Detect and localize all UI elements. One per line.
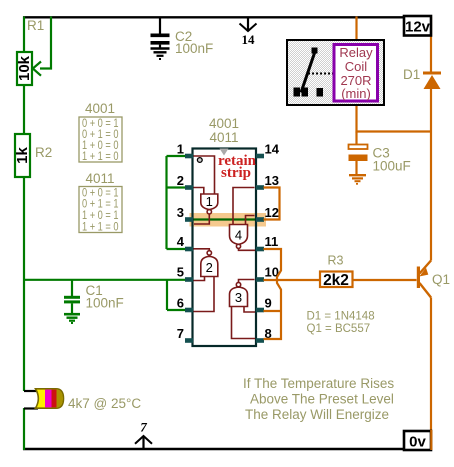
svg-text:10k: 10k	[16, 55, 33, 81]
svg-text:4: 4	[235, 228, 242, 243]
svg-text:100nF: 100nF	[86, 296, 124, 311]
svg-text:4011: 4011	[85, 171, 114, 186]
svg-text:6: 6	[177, 296, 184, 311]
svg-text:14: 14	[242, 32, 256, 47]
svg-text:2: 2	[206, 260, 213, 275]
svg-text:4: 4	[177, 234, 185, 249]
svg-text:1 + 1 = 0: 1 + 1 = 0	[82, 151, 119, 163]
svg-text:R3: R3	[328, 254, 344, 268]
svg-text:12: 12	[265, 205, 279, 220]
svg-text:2k2: 2k2	[323, 272, 349, 289]
svg-text:7: 7	[140, 420, 147, 435]
svg-text:3: 3	[177, 205, 184, 220]
svg-text:1 + 1 = 0: 1 + 1 = 0	[82, 222, 119, 234]
svg-text:4001: 4001	[85, 101, 115, 116]
svg-text:Relay: Relay	[339, 45, 373, 60]
svg-text:4011: 4011	[209, 130, 238, 145]
svg-text:R2: R2	[35, 145, 52, 160]
svg-text:11: 11	[265, 234, 279, 249]
svg-text:1 + 0 = 1: 1 + 0 = 1	[82, 210, 119, 222]
svg-text:7: 7	[177, 326, 184, 341]
svg-text:100nF: 100nF	[175, 41, 213, 56]
svg-text:0 + 1 = 1: 0 + 1 = 1	[82, 199, 119, 211]
svg-text:9: 9	[265, 296, 272, 311]
svg-text:5: 5	[177, 265, 184, 280]
svg-text:0v: 0v	[409, 434, 426, 451]
svg-text:13: 13	[265, 173, 279, 188]
svg-text:(min): (min)	[341, 86, 371, 101]
svg-text:The Relay Will Energize: The Relay Will Energize	[245, 407, 389, 422]
svg-text:3: 3	[235, 290, 242, 305]
svg-text:Q1: Q1	[432, 272, 450, 287]
svg-text:100uF: 100uF	[373, 159, 411, 174]
svg-text:If The Temperature Rises: If The Temperature Rises	[243, 376, 394, 391]
svg-text:strip: strip	[221, 165, 251, 181]
svg-text:Q1 = BC557: Q1 = BC557	[307, 323, 371, 335]
svg-text:R1: R1	[27, 18, 44, 33]
svg-text:Above The Preset Level: Above The Preset Level	[250, 392, 394, 407]
svg-text:2: 2	[177, 173, 184, 188]
svg-text:1: 1	[177, 142, 184, 157]
svg-text:1: 1	[206, 194, 213, 209]
svg-text:14: 14	[265, 142, 280, 157]
svg-text:D1: D1	[403, 67, 420, 82]
svg-text:4001: 4001	[209, 116, 239, 131]
svg-text:Coil: Coil	[345, 59, 368, 74]
svg-text:4k7 @ 25°C: 4k7 @ 25°C	[68, 396, 141, 411]
svg-text:D1 = 1N4148: D1 = 1N4148	[307, 311, 375, 323]
svg-text:12v: 12v	[405, 19, 431, 36]
svg-text:1k: 1k	[14, 147, 31, 164]
